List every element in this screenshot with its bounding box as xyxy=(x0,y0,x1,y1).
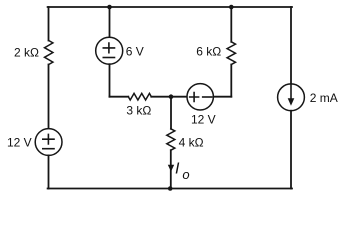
svg-text:12 V: 12 V xyxy=(7,136,32,150)
svg-text:3 kΩ: 3 kΩ xyxy=(126,103,151,117)
wire bottom xyxy=(48,188,292,190)
svg-text:6 V: 6 V xyxy=(126,45,144,59)
wire node to 12V source xyxy=(171,96,187,98)
svg-text:6 kΩ: 6 kΩ xyxy=(196,44,221,58)
wire branch 6V lower xyxy=(109,64,111,97)
svg-text:4 kΩ: 4 kΩ xyxy=(179,136,204,150)
V2 minus sign xyxy=(103,57,114,59)
svg-text:I: I xyxy=(175,161,180,178)
svg-text:o: o xyxy=(182,167,189,182)
V3 minus sign xyxy=(203,96,212,98)
wire left upper xyxy=(48,7,50,41)
wire right upper xyxy=(290,7,292,84)
resistor R1 2 kOhm xyxy=(45,41,53,65)
current source I1 2 mA circle xyxy=(278,84,305,111)
svg-text:2 mA: 2 mA xyxy=(310,91,338,105)
Io arrowhead xyxy=(168,165,174,172)
I1 arrowhead xyxy=(288,98,295,106)
V1 plus sign xyxy=(43,134,54,144)
V2 plus sign xyxy=(103,43,114,53)
wire middle horizontal left xyxy=(110,96,129,98)
voltage source V3 12 V (middle) circle xyxy=(187,84,213,110)
wire top xyxy=(48,6,292,8)
V3 plus sign xyxy=(190,93,199,102)
node junction dot top-right (6k branch) xyxy=(229,5,234,10)
svg-text:2 kΩ: 2 kΩ xyxy=(14,45,39,59)
wire branch 6k upper xyxy=(230,7,232,42)
wire branch 6k lower xyxy=(230,65,232,97)
wire left middle xyxy=(48,65,50,129)
resistor R3 6 kOhm xyxy=(227,42,235,65)
resistor R2 3 kOhm xyxy=(128,93,151,100)
V1 minus sign xyxy=(43,148,54,150)
node junction dot top-left (6V branch) xyxy=(107,5,112,10)
wire right lower xyxy=(290,111,292,189)
node junction dot bottom xyxy=(168,186,173,191)
node junction dot middle xyxy=(169,94,174,99)
wire branch 4k upper xyxy=(170,97,172,129)
resistor R4 4 kOhm xyxy=(167,129,175,150)
wire 12V source to corner xyxy=(213,96,231,98)
voltage source V1 12 V (left) circle xyxy=(35,129,62,156)
wire middle horizontal right xyxy=(151,96,171,98)
wire branch 4k lower xyxy=(170,150,172,188)
svg-text:12 V: 12 V xyxy=(191,113,216,127)
wire left lower xyxy=(48,155,50,188)
voltage source V2 6 V circle xyxy=(96,37,123,64)
I1 arrow shaft xyxy=(290,84,292,99)
wire branch 6V upper xyxy=(109,7,111,37)
